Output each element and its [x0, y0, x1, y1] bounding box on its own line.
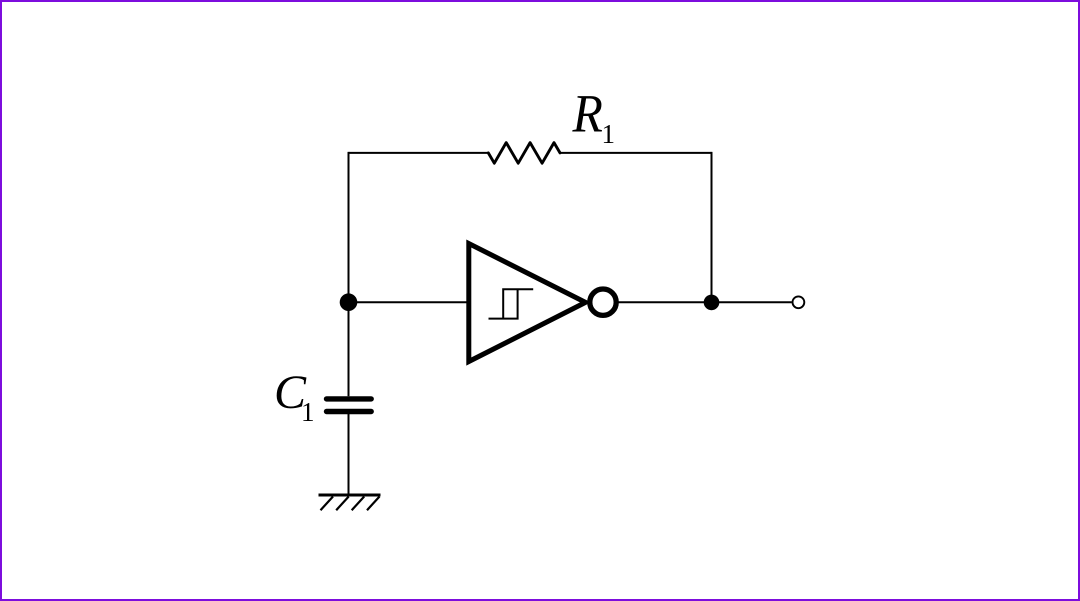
capacitor C1: [327, 399, 372, 412]
wire right vertical (output to feedback): [711, 152, 713, 303]
label R1: [572, 85, 615, 149]
label C1: [274, 366, 315, 427]
svg-text:1: 1: [301, 397, 315, 427]
inverter output bubble: [590, 289, 616, 315]
wire top loop right segment: [560, 152, 712, 154]
output terminal: [793, 296, 805, 308]
wire inverter output: [618, 301, 792, 303]
wire top loop left segment: [349, 152, 489, 154]
svg-text:R: R: [572, 85, 603, 144]
ground: [319, 495, 381, 510]
hysteresis symbol: [489, 289, 534, 318]
svg-text:1: 1: [602, 119, 616, 149]
wire inverter input: [349, 301, 469, 303]
node right junction: [704, 295, 720, 311]
wire capacitor to ground: [348, 414, 350, 495]
node left junction: [340, 293, 358, 311]
inverter U1 (Schmitt-trigger inverter triangle): [469, 244, 586, 362]
resistor R1: [488, 143, 560, 164]
wire left vertical (feedback to capacitor): [348, 152, 350, 396]
